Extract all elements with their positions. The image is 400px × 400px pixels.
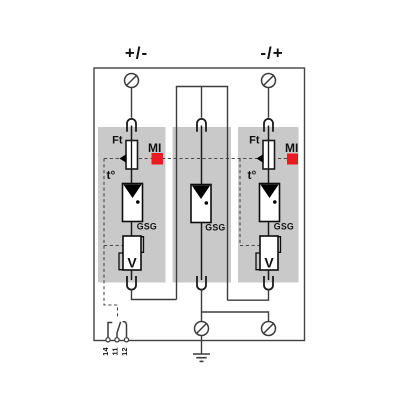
middle rail right: [227, 87, 229, 301]
contact pin circles: [106, 338, 129, 342]
indicator red square right: [287, 154, 298, 165]
svg-text:11: 11: [111, 348, 120, 356]
svg-text:V: V: [264, 255, 274, 271]
plug contact bottom left (arc): [127, 276, 136, 290]
svg-text:t°: t°: [107, 168, 116, 182]
terminal screw ground center: [195, 322, 209, 336]
wire varistor to plug right: [268, 270, 270, 280]
gray zone middle channel: [173, 127, 232, 283]
wire node to PE terminal: [202, 312, 269, 322]
varistor with disconnector right: [256, 236, 281, 271]
svg-text:+/-: +/-: [125, 44, 148, 63]
svg-text:t°: t°: [248, 168, 257, 182]
dashed signal line MI (horizontal): [104, 158, 298, 160]
wire from X2 down: [268, 88, 270, 118]
terminal screw X2 (-/+): [262, 74, 276, 88]
remote contact fixed NC: [108, 323, 112, 339]
svg-text:14: 14: [101, 347, 110, 356]
disconnect arrow right (triangle): [257, 154, 264, 163]
plug contact bottom right: [264, 276, 273, 290]
wire GSG to varistor right: [268, 222, 270, 237]
svg-text:MI: MI: [148, 141, 161, 155]
plug contact top middle: [197, 119, 206, 132]
middle rail left: [176, 87, 178, 300]
gray zone left channel: [98, 127, 166, 283]
wire middle to ground node: [201, 290, 203, 322]
svg-text:12: 12: [120, 348, 129, 356]
wire into fuse right: [268, 126, 270, 184]
terminal screw PE right: [262, 322, 276, 336]
spark gap GSG middle: [191, 185, 211, 223]
dashed branch to left disconnector: [104, 245, 123, 247]
plug contact top right: [264, 119, 273, 132]
wire middle center down: [201, 87, 203, 118]
gray zone right channel: [238, 127, 299, 283]
wire from X1 down: [131, 88, 133, 118]
fuse Ft left: [126, 141, 138, 170]
wire middle GSG down: [201, 223, 203, 281]
wire screw to ground symbol: [201, 336, 203, 355]
spark gap GSG right: [260, 184, 280, 222]
svg-text:GSG: GSG: [274, 222, 294, 232]
remote contact common (moving): [117, 322, 121, 339]
dashed linkage right: [240, 159, 260, 246]
disconnect arrow left (triangle): [120, 154, 127, 163]
svg-text:-/+: -/+: [260, 44, 283, 63]
enclosure outline: [94, 68, 305, 341]
wire into middle GSG: [201, 126, 203, 186]
ground: [193, 354, 210, 361]
fuse Ft right: [263, 141, 275, 170]
wire right channel to middle rail: [228, 290, 269, 301]
remote contact fixed NO (hook): [123, 322, 127, 339]
svg-text:GSG: GSG: [137, 222, 157, 232]
wire varistor to plug left: [131, 270, 133, 280]
svg-text:MI: MI: [285, 141, 298, 155]
wire GSG to varistor left: [131, 222, 133, 237]
terminal screw X1 (+/-): [125, 74, 139, 88]
svg-text:V: V: [127, 255, 137, 271]
wire into fuse left: [131, 126, 133, 184]
indicator red square left: [152, 153, 164, 165]
svg-text:Ft: Ft: [249, 135, 260, 147]
dashed linkage left (vertical to remote contact): [104, 159, 118, 319]
varistor with disconnector left: [119, 236, 144, 271]
svg-text:Ft: Ft: [112, 135, 123, 147]
svg-text:GSG: GSG: [205, 223, 225, 233]
wire left channel to middle rail: [132, 290, 177, 300]
plug contact bottom middle: [197, 276, 206, 290]
middle top bar: [176, 86, 228, 88]
plug contact top left (arc): [127, 119, 136, 132]
spark gap GSG left: [123, 184, 143, 222]
